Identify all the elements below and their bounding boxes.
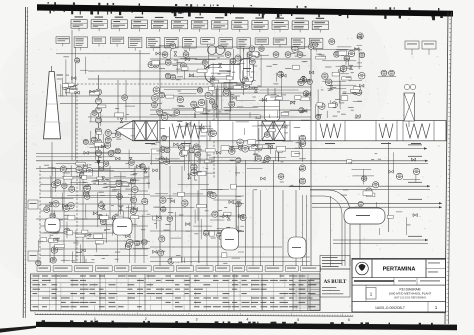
horizontal drum D-401: [344, 208, 385, 224]
drum D-301: [45, 218, 60, 232]
svg-text:5: 5: [297, 318, 299, 322]
sheet right border ruler: [445, 12, 451, 324]
piping cluster top-middle: [148, 43, 313, 121]
piping cluster lower-middle: [152, 184, 246, 264]
equipment title boxes row 1: [71, 16, 328, 32]
svg-text:1A001-D-0002DB-T: 1A001-D-0002DB-T: [375, 306, 405, 310]
piping cluster lower-left: [36, 160, 150, 266]
AS BUILT stamp + received-for-construction box: [320, 256, 350, 298]
vessel V-305: [221, 228, 239, 250]
instrument pair right of drum: [378, 70, 396, 76]
vessel V-401: [288, 237, 306, 258]
flare stack B-301: [44, 66, 64, 139]
left margin revision marks: [28, 200, 38, 261]
svg-text:UNIT 100 SGS REFORMING: UNIT 100 SGS REFORMING: [394, 296, 427, 299]
piping cluster upper-left: [83, 90, 138, 193]
scan artifact: bottom black band: [0, 320, 457, 332]
piping cluster left-top small: [57, 56, 88, 96]
svg-text:PERTAMINA: PERTAMINA: [383, 267, 416, 273]
svg-text:2: 2: [145, 317, 147, 321]
piping cluster mid-right band: [233, 120, 310, 190]
piping cluster right-top: [308, 33, 365, 120]
instrument chain on riser: [96, 75, 102, 185]
scan artifact: top black band: [37, 2, 453, 20]
equipment label strip above table: [37, 266, 321, 272]
equipment title boxes row 2: [56, 37, 323, 52]
svg-text:1: 1: [94, 317, 96, 321]
sheet bottom frame line: [30, 311, 446, 313]
instrument row along top header: [162, 52, 303, 58]
main header pipes: [36, 30, 442, 266]
scale ruler: [35, 312, 353, 322]
svg-text:6: 6: [348, 318, 350, 322]
battery limit dashed boundary: [40, 84, 214, 263]
piping cluster right-mid: [341, 152, 420, 235]
svg-text:4: 4: [246, 318, 248, 322]
sheet left border ruler: [23, 7, 28, 318]
superheater coil stack right: [404, 84, 416, 127]
equipment summary table: [31, 274, 321, 311]
top-right traced boxes: [405, 41, 436, 55]
svg-text:1: 1: [435, 305, 438, 310]
piping cluster mid-left band: [151, 121, 216, 180]
piping cluster below reformer: [151, 144, 302, 163]
drum D-302: [113, 218, 132, 235]
vertical drum V-203: [240, 59, 254, 84]
svg-text:AS BUILT: AS BUILT: [324, 280, 347, 285]
drum V-201: [205, 46, 253, 89]
riser drum above reformer: [265, 88, 280, 121]
reformer furnace train E-201: [116, 121, 447, 144]
svg-text:3: 3: [196, 317, 198, 321]
title block PERTAMINA: [310, 259, 446, 313]
svg-text:1000 MT/D METHANOL PLANT: 1000 MT/D METHANOL PLANT: [389, 291, 432, 295]
